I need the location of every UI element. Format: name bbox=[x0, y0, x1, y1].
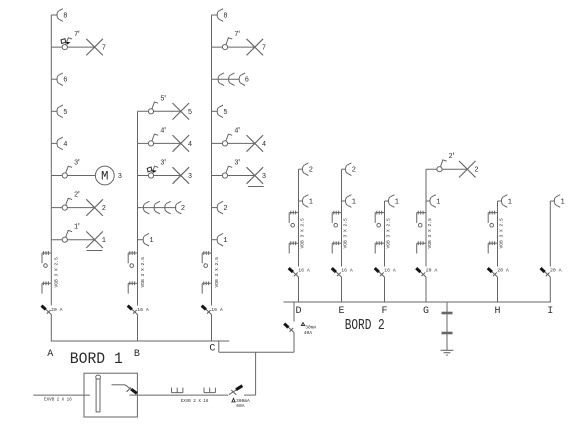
label 1 bbox=[102, 237, 106, 245]
switch 3' (circuit A) bbox=[62, 166, 72, 178]
ground electrode bbox=[441, 350, 454, 355]
svg-text:B: B bbox=[134, 349, 140, 360]
cable label VOB 3x2.5 circuit B bbox=[140, 257, 146, 288]
cable label VOB 3x2.5 bbox=[427, 218, 433, 249]
label 4' bbox=[160, 127, 166, 135]
svg-text:3': 3' bbox=[160, 160, 166, 168]
svg-text:I: I bbox=[547, 306, 553, 317]
cable marker down bbox=[289, 241, 298, 253]
title BORD 2 bbox=[345, 317, 385, 334]
node E bbox=[338, 306, 344, 317]
wire branch 2 bbox=[426, 168, 467, 170]
svg-text:5: 5 bbox=[63, 109, 67, 117]
cable marker up bbox=[289, 211, 298, 227]
wire circuit I riser bbox=[549, 201, 551, 302]
lamp 7 (circuit A) bbox=[86, 39, 103, 56]
label 1 bbox=[352, 199, 356, 207]
svg-text:1: 1 bbox=[508, 199, 512, 207]
wire stub to socket 1 bbox=[426, 200, 430, 202]
label 4' bbox=[234, 127, 240, 135]
cable marker down bbox=[488, 241, 497, 253]
svg-text:1: 1 bbox=[436, 199, 440, 207]
svg-text:3: 3 bbox=[188, 173, 192, 181]
socket outlet 1 (circuit C) bbox=[217, 233, 223, 246]
svg-text:1': 1' bbox=[74, 224, 80, 232]
title BORD 1 bbox=[70, 350, 123, 368]
socket outlet 8 (circuit A) bbox=[57, 9, 63, 22]
wire circuit B riser bbox=[137, 111, 139, 341]
socket outlet 4 (circuit A) bbox=[57, 137, 63, 150]
label 3' bbox=[234, 160, 240, 168]
svg-text:2: 2 bbox=[309, 167, 313, 175]
label 5 bbox=[223, 109, 227, 117]
wire bend to socket 1 bbox=[550, 200, 554, 202]
socket outlet row 6 (circuit C) bbox=[218, 73, 245, 86]
svg-text:4': 4' bbox=[160, 127, 166, 135]
circuit breaker 20A circuit A bbox=[42, 306, 52, 315]
wire drop to supply bbox=[255, 352, 257, 395]
earth joint bar lower bbox=[442, 332, 453, 335]
label 6 bbox=[63, 77, 67, 85]
svg-text:D: D bbox=[295, 306, 301, 317]
label 2 bbox=[181, 205, 185, 213]
node C bbox=[209, 344, 215, 355]
label 1' bbox=[74, 224, 80, 232]
label 20 A bbox=[497, 268, 509, 274]
switch 5' (circuit B) bbox=[148, 102, 158, 114]
socket outlet 2 (circuit D) bbox=[303, 163, 309, 176]
label 5 bbox=[63, 109, 67, 117]
wire stub to socket 2 bbox=[212, 207, 218, 209]
wire feed BORD 2 lower bbox=[293, 333, 295, 353]
label 3 bbox=[118, 173, 122, 181]
cable marker up bbox=[332, 211, 341, 227]
wire circuit H riser bbox=[497, 201, 499, 302]
wire bend to socket 2 bbox=[299, 168, 303, 170]
svg-text:1: 1 bbox=[395, 199, 399, 207]
svg-text:4: 4 bbox=[188, 141, 192, 149]
wire branch 2 bbox=[51, 207, 94, 209]
motor M 3 bbox=[95, 166, 114, 185]
label 16 A bbox=[384, 268, 396, 274]
switch 2' (circuit G) bbox=[437, 160, 447, 172]
svg-text:2: 2 bbox=[181, 205, 185, 213]
cable marker down circuit C bbox=[202, 281, 211, 293]
svg-text:E: E bbox=[338, 306, 344, 317]
wire stub to socket 5 bbox=[51, 110, 57, 112]
svg-text:C: C bbox=[209, 344, 215, 355]
switch 4' (circuit B) bbox=[148, 134, 158, 146]
wire stub to socket 6 bbox=[51, 78, 57, 80]
svg-text:3': 3' bbox=[234, 160, 240, 168]
svg-text:6: 6 bbox=[245, 77, 249, 85]
socket outlet 5 (circuit C) bbox=[217, 105, 223, 118]
label 2 bbox=[102, 205, 106, 213]
wire stub to socket 1 bbox=[138, 239, 144, 241]
label 3' bbox=[160, 160, 166, 168]
switch 7' (circuit C) bbox=[222, 38, 232, 50]
label 2 bbox=[352, 167, 356, 175]
cable marker up circuit B bbox=[128, 251, 137, 267]
label 20 A bbox=[426, 268, 438, 274]
socket outlet 6 (circuit A) bbox=[57, 73, 63, 86]
lamp 1 wall type (circuit A) bbox=[86, 231, 103, 250]
lamp 4 (circuit B) bbox=[173, 135, 190, 152]
node D bbox=[295, 306, 301, 317]
cable marker up circuit A bbox=[42, 251, 51, 267]
label 2 bbox=[223, 205, 227, 213]
label EXVB 2 X 16 link bbox=[181, 400, 209, 404]
circuit breaker 16 A bbox=[289, 268, 299, 277]
label 60A bbox=[236, 403, 245, 409]
wire branch 5 bbox=[138, 110, 181, 112]
svg-text:8: 8 bbox=[223, 13, 227, 21]
label 7 bbox=[102, 45, 106, 53]
svg-text:16 A: 16 A bbox=[384, 268, 396, 274]
wire circuit G riser bbox=[425, 169, 427, 302]
svg-text:4: 4 bbox=[63, 141, 67, 149]
circuit breaker 20 A bbox=[416, 268, 426, 277]
label 4 bbox=[188, 141, 192, 149]
svg-text:30mA: 30mA bbox=[305, 324, 316, 330]
lamp 7 (circuit C) bbox=[247, 39, 264, 56]
svg-text:VOB 3 X 2.5: VOB 3 X 2.5 bbox=[54, 257, 60, 288]
svg-text:1: 1 bbox=[149, 237, 153, 245]
socket outlet 1 (circuit F) bbox=[389, 195, 395, 208]
svg-text:VOB 3 X 2.5: VOB 3 X 2.5 bbox=[140, 257, 146, 288]
svg-text:3: 3 bbox=[262, 173, 266, 181]
busbar BORD 1 bbox=[51, 340, 229, 342]
wire branch 4 bbox=[212, 142, 255, 144]
socket outlet 1 (circuit G) bbox=[430, 195, 436, 208]
svg-text:2: 2 bbox=[223, 205, 227, 213]
svg-text:40A: 40A bbox=[304, 330, 313, 336]
label 3 bbox=[188, 173, 192, 181]
label 1 bbox=[309, 199, 313, 207]
svg-text:60A: 60A bbox=[236, 403, 245, 409]
svg-text:VOB 3 X 2.5: VOB 3 X 2.5 bbox=[499, 218, 505, 249]
label 1 bbox=[395, 199, 399, 207]
node H bbox=[494, 306, 500, 317]
svg-text:VOB 3 X 2.5: VOB 3 X 2.5 bbox=[214, 257, 220, 288]
svg-text:20 A: 20 A bbox=[51, 307, 63, 313]
label 1 bbox=[560, 199, 564, 207]
label 7' bbox=[74, 31, 80, 39]
wire branch 7 bbox=[51, 46, 94, 48]
label 8 bbox=[63, 13, 67, 21]
socket outlet 2 (circuit E) bbox=[346, 163, 352, 176]
svg-text:5': 5' bbox=[160, 95, 166, 103]
label 5' bbox=[160, 95, 166, 103]
wire branch 7 bbox=[212, 46, 255, 48]
label 16 A bbox=[137, 307, 149, 313]
socket outlet 1 (circuit B) bbox=[143, 233, 149, 246]
label 7' bbox=[234, 31, 240, 39]
label 1 bbox=[149, 237, 153, 245]
label 5 bbox=[188, 109, 192, 117]
svg-text:7: 7 bbox=[102, 45, 106, 53]
svg-text:1: 1 bbox=[352, 199, 356, 207]
svg-text:VOB 3 X 2.5: VOB 3 X 2.5 bbox=[386, 218, 392, 249]
cable label VOB 3x2.5 bbox=[300, 218, 306, 249]
wire bend to socket 1 bbox=[385, 200, 389, 202]
circuit breaker 16 A bbox=[375, 268, 385, 277]
main fuse bbox=[96, 375, 101, 412]
node B bbox=[134, 349, 140, 360]
switch 1' (circuit A) bbox=[62, 230, 72, 242]
label 3 bbox=[262, 173, 266, 181]
svg-text:7': 7' bbox=[234, 31, 240, 39]
wire circuit A riser bbox=[50, 15, 52, 341]
svg-text:2': 2' bbox=[74, 192, 80, 200]
label EXVB 2 X 16 incomer bbox=[44, 399, 72, 403]
svg-text:7': 7' bbox=[74, 31, 80, 39]
switch 3' (circuit C) bbox=[222, 166, 232, 178]
label 7 bbox=[262, 45, 266, 53]
label 2' bbox=[74, 192, 80, 200]
wire circuit D riser bbox=[298, 169, 300, 302]
label delta 300mA bbox=[232, 398, 250, 404]
svg-text:VOB 3 X 2.5: VOB 3 X 2.5 bbox=[343, 218, 349, 249]
cable label VOB 3x2.5 circuit C bbox=[214, 257, 220, 288]
label 16 A bbox=[211, 307, 223, 313]
socket outlet 5 (circuit A) bbox=[57, 105, 63, 118]
lamp 2 (circuit G) bbox=[459, 161, 476, 178]
svg-text:H: H bbox=[494, 306, 500, 317]
label 40A bbox=[304, 330, 313, 336]
wire bend to socket 2 bbox=[342, 168, 346, 170]
label 6 bbox=[245, 77, 249, 85]
svg-text:A: A bbox=[47, 349, 53, 360]
wire circuit F riser bbox=[384, 201, 386, 302]
switch 4' (circuit C) bbox=[222, 134, 232, 146]
label 20 A bbox=[51, 307, 63, 313]
wire branch 3 bbox=[212, 175, 255, 177]
conduit marker 2 bbox=[204, 388, 215, 393]
wire stub to socket 8 bbox=[51, 14, 57, 16]
socket outlet 2 (circuit C) bbox=[217, 201, 223, 214]
label 1 bbox=[508, 199, 512, 207]
switch 7' (circuit A) bbox=[61, 38, 72, 50]
switch 3' (circuit B) bbox=[147, 166, 158, 178]
svg-text:EXVB 2 X 16: EXVB 2 X 16 bbox=[44, 399, 72, 403]
wire stub to socket 5 bbox=[212, 110, 218, 112]
svg-text:VOB 3 X 2.5: VOB 3 X 2.5 bbox=[300, 218, 306, 249]
wire circuit C riser bbox=[211, 15, 213, 341]
wire feed BORD 2 upper bbox=[293, 302, 295, 322]
svg-text:VOB 3 X 2.5: VOB 3 X 2.5 bbox=[427, 218, 433, 249]
wire branch 6 triple sockets bbox=[212, 78, 240, 80]
wire after differential bbox=[244, 394, 256, 396]
svg-text:1: 1 bbox=[309, 199, 313, 207]
main switch in cabinet bbox=[112, 385, 138, 395]
busbar BORD 2 bbox=[284, 301, 552, 303]
socket outlet 1 (circuit H) bbox=[502, 195, 508, 208]
svg-text:5: 5 bbox=[223, 109, 227, 117]
wire stub to socket 8 bbox=[212, 14, 218, 16]
switch 2' (circuit A) bbox=[62, 198, 72, 210]
cable marker up bbox=[417, 211, 426, 227]
lamp 2 (circuit A) bbox=[86, 199, 103, 216]
lamp 3 (circuit B) bbox=[173, 167, 190, 184]
label 20 A bbox=[550, 268, 562, 274]
wire stub to socket 1 bbox=[342, 200, 346, 202]
circuit breaker 16 A bbox=[332, 268, 342, 277]
svg-text:20 A: 20 A bbox=[550, 268, 562, 274]
cable marker down bbox=[375, 241, 384, 253]
cable label VOB 3x2.5 bbox=[386, 218, 392, 249]
wire supply to differential bbox=[137, 394, 228, 396]
lamp 5 (circuit B) bbox=[173, 103, 190, 120]
svg-text:1: 1 bbox=[223, 237, 227, 245]
cable label VOB 3x2.5 bbox=[343, 218, 349, 249]
differential breaker 300mA 60A bbox=[229, 386, 242, 395]
svg-text:2': 2' bbox=[448, 153, 454, 161]
cable marker up bbox=[375, 211, 384, 227]
svg-text:16 A: 16 A bbox=[298, 268, 310, 274]
cable marker up circuit C bbox=[202, 251, 211, 267]
svg-text:8: 8 bbox=[63, 13, 67, 21]
svg-text:20 A: 20 A bbox=[426, 268, 438, 274]
svg-text:16 A: 16 A bbox=[211, 307, 223, 313]
svg-text:3': 3' bbox=[74, 160, 80, 168]
label 16 A bbox=[298, 268, 310, 274]
wire branch 2 quad sockets bbox=[138, 207, 177, 209]
lamp 3 wall type (circuit C) bbox=[247, 167, 264, 186]
circuit breaker 16A circuit B bbox=[128, 306, 138, 315]
circuit breaker 20 A bbox=[541, 268, 551, 277]
conduit marker 1 bbox=[172, 388, 183, 393]
node I bbox=[547, 306, 553, 317]
node F bbox=[381, 306, 387, 317]
cable marker up bbox=[488, 211, 497, 227]
label 4 bbox=[63, 141, 67, 149]
svg-text:BORD 1: BORD 1 bbox=[70, 350, 123, 368]
wire link bus bbox=[219, 351, 294, 353]
circuit breaker 20 A bbox=[488, 268, 498, 277]
socket outlet 8 (circuit C) bbox=[217, 9, 223, 22]
lamp 4 (circuit C) bbox=[247, 135, 264, 152]
svg-text:7: 7 bbox=[262, 45, 266, 53]
node G bbox=[423, 306, 429, 317]
svg-text:16 A: 16 A bbox=[341, 268, 353, 274]
svg-text:2: 2 bbox=[474, 167, 478, 175]
cable label VOB 3x2.5 circuit A bbox=[54, 257, 60, 288]
svg-text:6: 6 bbox=[63, 77, 67, 85]
socket outlet 1 (circuit D) bbox=[303, 195, 309, 208]
label 1 bbox=[223, 237, 227, 245]
svg-text:BORD 2: BORD 2 bbox=[345, 317, 385, 334]
svg-text:20 A: 20 A bbox=[497, 268, 509, 274]
svg-text:4: 4 bbox=[262, 141, 266, 149]
svg-text:1: 1 bbox=[102, 237, 106, 245]
wire step from BORD 1 bus bbox=[218, 341, 220, 352]
svg-text:2: 2 bbox=[352, 167, 356, 175]
node A bbox=[47, 349, 53, 360]
wire stub to socket 1 bbox=[212, 239, 218, 241]
wire stub to socket 1 bbox=[299, 200, 303, 202]
svg-text:M: M bbox=[101, 170, 109, 184]
socket outlet 1 (circuit I) bbox=[554, 195, 560, 208]
cable marker down circuit A bbox=[42, 281, 51, 293]
wire branch 3 bbox=[138, 175, 181, 177]
svg-text:16 A: 16 A bbox=[137, 307, 149, 313]
wire branch 1 bbox=[51, 239, 94, 241]
svg-text:3: 3 bbox=[118, 173, 122, 181]
svg-text:1: 1 bbox=[560, 199, 564, 207]
cable marker down bbox=[332, 241, 341, 253]
wire branch 4 bbox=[138, 142, 181, 144]
label 2 bbox=[309, 167, 313, 175]
label 4 bbox=[262, 141, 266, 149]
svg-text:4': 4' bbox=[234, 127, 240, 135]
cable label VOB 3x2.5 bbox=[499, 218, 505, 249]
svg-text:G: G bbox=[423, 306, 429, 317]
label 2' bbox=[448, 153, 454, 161]
wire circuit E riser bbox=[341, 169, 343, 302]
label delta 30mA bbox=[301, 323, 316, 331]
svg-text:2: 2 bbox=[102, 205, 106, 213]
socket outlet row 2 (circuit B) bbox=[143, 201, 181, 214]
label 8 bbox=[223, 13, 227, 21]
wire stub to socket 4 bbox=[51, 142, 57, 144]
meter cabinet bbox=[84, 373, 137, 417]
circuit breaker 16A circuit C bbox=[202, 306, 212, 315]
svg-text:5: 5 bbox=[188, 109, 192, 117]
svg-text:F: F bbox=[381, 306, 387, 317]
wire supply incomer bbox=[33, 394, 90, 396]
wire bend to socket 1 bbox=[498, 200, 502, 202]
label 3' bbox=[74, 160, 80, 168]
cable marker down circuit B bbox=[128, 281, 137, 293]
earth conductor bbox=[446, 302, 448, 350]
socket outlet 1 (circuit E) bbox=[346, 195, 352, 208]
label 16 A bbox=[341, 268, 353, 274]
cable marker down bbox=[417, 241, 426, 253]
svg-text:EXVB 2 X 16: EXVB 2 X 16 bbox=[181, 400, 209, 404]
wire branch 3 bbox=[51, 175, 95, 177]
label 1 bbox=[436, 199, 440, 207]
earth joint bar upper bbox=[442, 312, 453, 315]
label 2 bbox=[474, 167, 478, 175]
differential breaker 30mA 40A bbox=[284, 324, 294, 333]
